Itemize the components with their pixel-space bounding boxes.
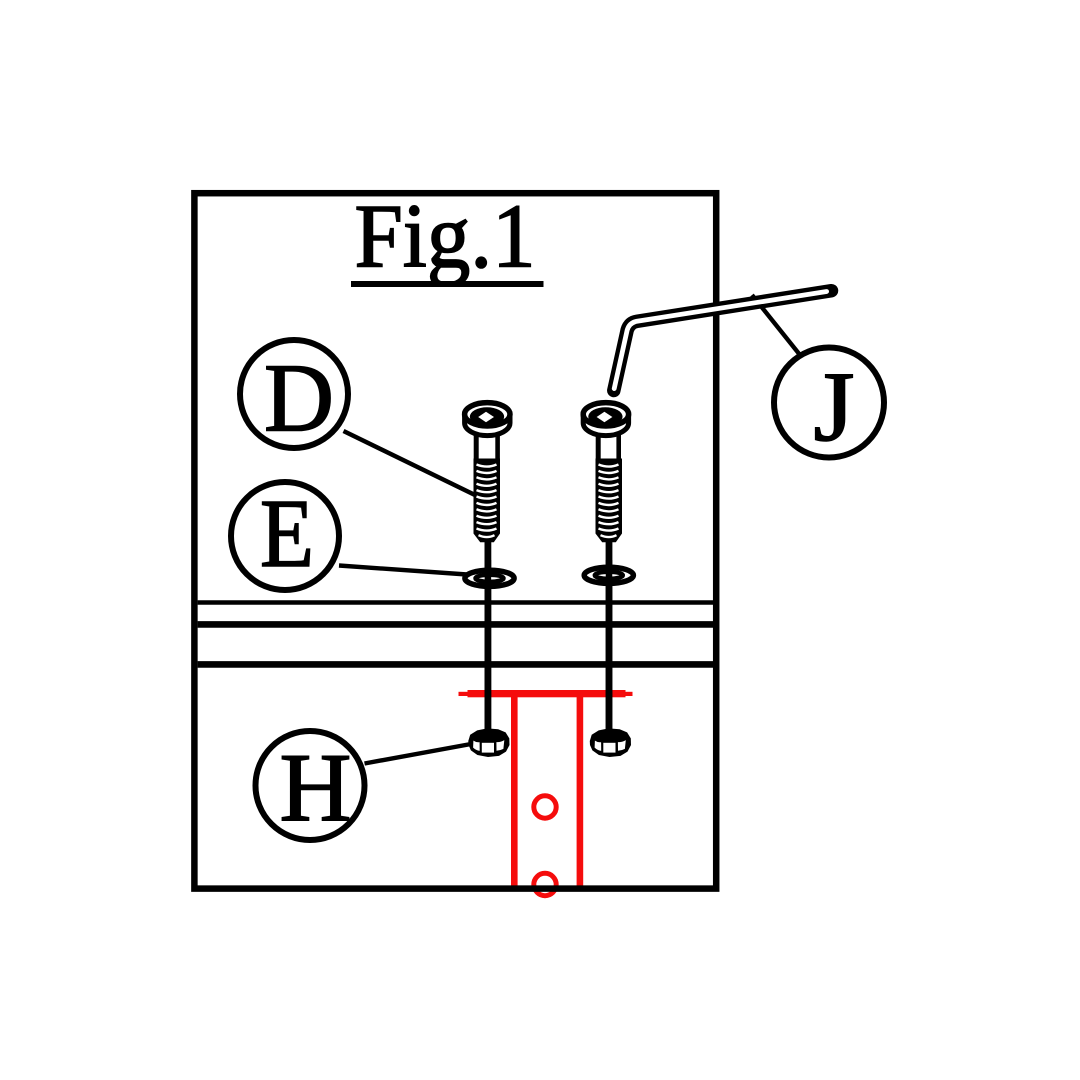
callout circle D	[240, 340, 348, 448]
leader line E	[339, 566, 467, 575]
allen key J	[614, 291, 832, 391]
bolt right: shaft through washer	[606, 560, 613, 736]
leader line H	[365, 744, 472, 764]
svg-text:D: D	[264, 345, 334, 453]
nut H right	[590, 728, 631, 757]
leader line D	[344, 431, 477, 496]
tabletop surface line (thin)	[198, 600, 713, 604]
bolt right: threaded section	[596, 459, 623, 543]
red bracket hole 1	[534, 796, 556, 818]
svg-text:Fig.1: Fig.1	[355, 186, 536, 287]
leader line J	[752, 295, 800, 355]
bolt D left: head	[465, 414, 510, 436]
red bracket top flange	[459, 690, 633, 697]
svg-text:H: H	[280, 735, 352, 843]
title underline	[351, 281, 544, 287]
red bracket hole 2	[534, 873, 556, 895]
bolt D left: threaded section	[474, 459, 501, 543]
bolt D left: shaft through washer	[485, 560, 492, 736]
bolt right: shank outline	[596, 428, 601, 464]
bolt D left: thin shaft	[484, 538, 491, 736]
callout circle H	[256, 731, 365, 840]
panel bottom line	[198, 661, 713, 668]
svg-text:E: E	[260, 480, 314, 587]
bolt right: thin shaft	[606, 538, 613, 736]
bolt right: head	[583, 414, 628, 436]
bolt D left: shank outline	[474, 428, 479, 464]
nut H left	[468, 728, 509, 757]
red bracket left wall	[511, 692, 518, 891]
washer E left	[465, 570, 514, 586]
callout circle E	[231, 482, 339, 590]
svg-text:J: J	[814, 351, 855, 462]
panel edge line (middle)	[198, 621, 713, 628]
washer E right	[584, 567, 633, 583]
panel outline box	[194, 193, 716, 888]
red bracket right wall	[577, 692, 584, 891]
callout circle J	[774, 348, 884, 458]
